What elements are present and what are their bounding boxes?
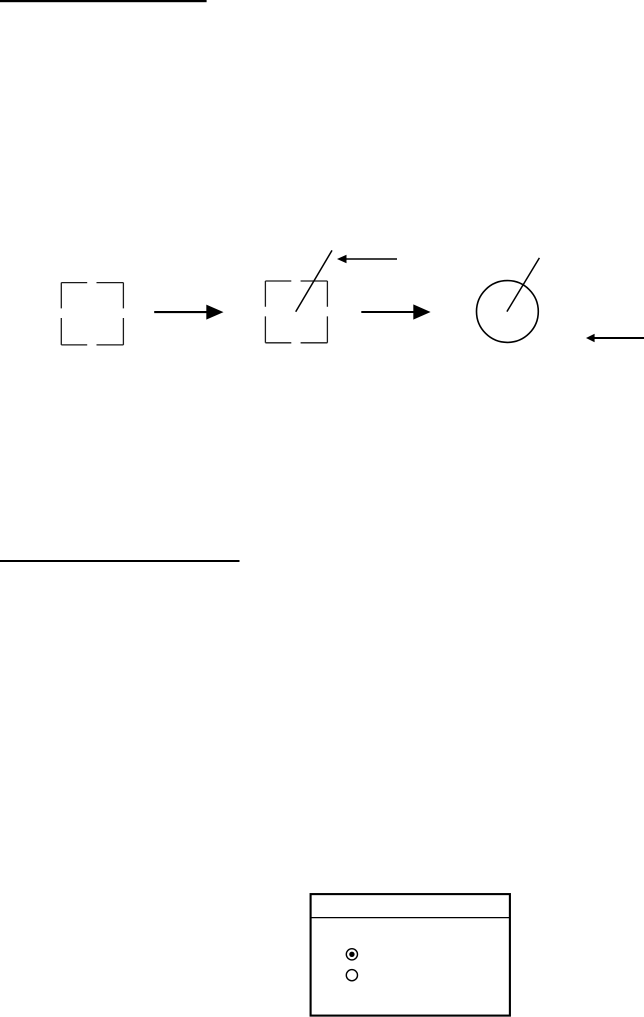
circle: [477, 281, 539, 343]
top heading underline: [0, 0, 207, 2]
section heading underline (middle left): [0, 560, 240, 562]
radio button selected: [346, 949, 357, 960]
radio button unselected: [346, 970, 357, 981]
arrow 2 (square 2 to circle): [361, 304, 430, 319]
arrow 1 (square 1 to square 2): [154, 305, 223, 320]
dashed square 2: [265, 281, 327, 343]
pen slash over circle: [507, 258, 540, 312]
pen slash over square 2: [296, 250, 332, 311]
dashed square 1: [61, 283, 123, 345]
arrow entering from right edge: [586, 334, 644, 342]
dialog box frame: [311, 894, 510, 1016]
small arrow pointing at pen slash: [337, 255, 397, 264]
dialog title bar separator: [311, 917, 510, 919]
